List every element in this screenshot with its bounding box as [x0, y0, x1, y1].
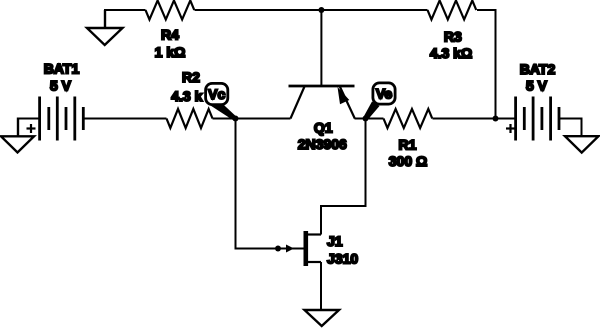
arrow (gate direction): [286, 245, 294, 253]
wire (R3 to right rail corner): [477, 9, 496, 11]
svg-text:R4: R4: [161, 27, 179, 43]
battery BAT1: [40, 97, 84, 141]
wire (right rail junction to BAT2 positive): [496, 118, 516, 120]
junction (right rail): [493, 116, 499, 122]
wire (Ve junction to R1): [366, 118, 384, 120]
wire (left ground to BAT1 negative): [18, 118, 40, 120]
svg-text:Ve: Ve: [376, 85, 393, 101]
wire (R1 to right rail junction): [433, 118, 496, 120]
svg-text:R3: R3: [444, 29, 462, 45]
svg-text:2N3906: 2N3906: [298, 136, 347, 152]
svg-text:R2: R2: [182, 69, 200, 85]
wire (BAT2 negative to right ground): [559, 119, 582, 137]
svg-text:J310: J310: [327, 251, 358, 267]
junction (Ve node): [363, 116, 369, 122]
svg-text:BAT2: BAT2: [520, 61, 556, 77]
plus terminal BAT1: [27, 124, 36, 133]
ground (left, BAT1): [1, 118, 34, 153]
svg-text:Q1: Q1: [314, 120, 333, 136]
wire (top node to R3): [321, 9, 427, 11]
wire (Vc node down to J1 gate): [236, 119, 304, 249]
battery BAT2: [516, 97, 559, 141]
svg-text:300 Ω: 300 Ω: [389, 153, 427, 169]
junction (Vc node): [233, 116, 239, 122]
svg-text:Vc: Vc: [208, 86, 225, 102]
ground (bottom): [305, 310, 340, 326]
wire (R4 to top node): [195, 9, 322, 11]
resistor R1: [384, 109, 433, 128]
junction (top node): [318, 7, 324, 13]
svg-text:BAT1: BAT1: [44, 61, 80, 77]
svg-text:4.3 k: 4.3 k: [171, 88, 202, 104]
junction (gate wire dot): [275, 246, 281, 252]
wire (right rail vertical): [495, 9, 497, 119]
wire (top node to Q1 base): [320, 10, 322, 86]
svg-text:4.3 kΩ: 4.3 kΩ: [430, 45, 472, 61]
plus terminal BAT2: [506, 124, 515, 133]
node Vc: [206, 83, 237, 120]
wire (J1 drain up to Ve node): [321, 119, 366, 235]
transistor J1 (JFET): [306, 231, 321, 266]
wire (J1 source down to bottom ground): [320, 262, 322, 310]
wire (Q1 emitter to Ve junction): [355, 118, 366, 120]
svg-text:1 kΩ: 1 kΩ: [155, 44, 186, 60]
resistor R4: [146, 1, 195, 20]
wire (R2 to Q1 collector): [213, 118, 291, 120]
svg-text:J1: J1: [327, 233, 343, 249]
resistor R3: [428, 1, 477, 20]
transistor Q1: [289, 86, 355, 119]
node Ve: [364, 83, 396, 120]
ground (right, BAT2): [565, 136, 599, 152]
ground (top left): [87, 10, 123, 45]
svg-text:R1: R1: [399, 137, 417, 153]
wire (BAT1 positive to R2): [83, 118, 166, 120]
svg-text:5 V: 5 V: [50, 78, 72, 94]
resistor R2: [167, 109, 213, 128]
svg-text:5 V: 5 V: [526, 78, 548, 94]
wire (top-left ground to R4): [104, 9, 146, 11]
